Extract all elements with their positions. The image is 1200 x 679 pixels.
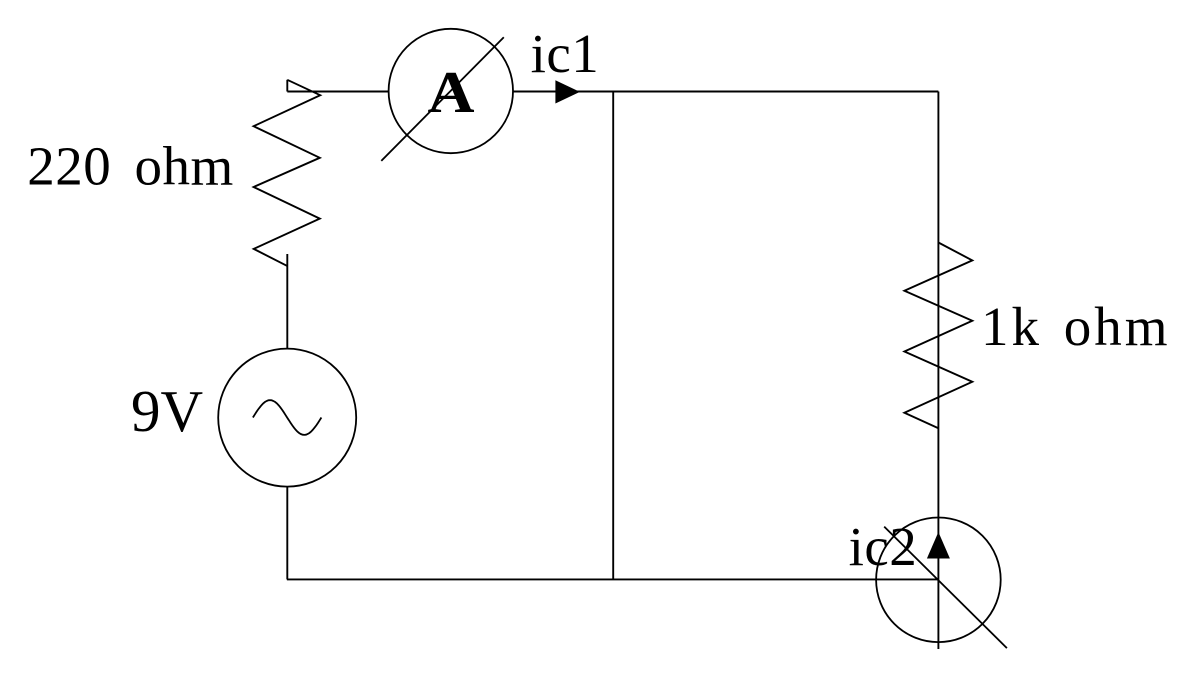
svg-text:ic1: ic1	[531, 23, 600, 84]
svg-text:A: A	[428, 59, 475, 125]
svg-text:ic2: ic2	[849, 516, 918, 577]
svg-text:9V: 9V	[131, 378, 203, 444]
svg-text:1k ohm: 1k ohm	[981, 296, 1171, 357]
svg-text:220 ohm: 220 ohm	[27, 136, 234, 197]
